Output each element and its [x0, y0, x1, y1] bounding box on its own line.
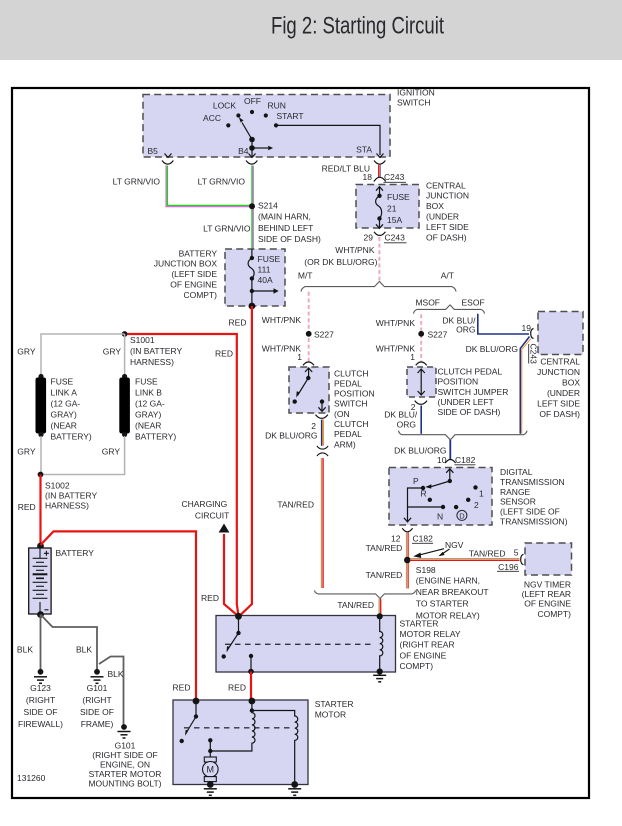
brace split MSOF - ESOF: [414, 305, 485, 314]
fuse 21 element: [377, 194, 381, 198]
svg-text:DK BLU/ORG: DK BLU/ORG: [466, 344, 518, 354]
svg-text:SWITCH JUMPER: SWITCH JUMPER: [438, 387, 509, 397]
svg-text:DIGITAL: DIGITAL: [500, 467, 533, 477]
svg-text:BEHIND LEFT: BEHIND LEFT: [258, 223, 313, 233]
svg-text:COMPT): COMPT): [183, 290, 217, 300]
svg-text:FIREWALL): FIREWALL): [18, 719, 63, 729]
NGV timer box: [525, 543, 572, 575]
svg-text:RED: RED: [228, 682, 246, 692]
svg-text:LINK A: LINK A: [51, 388, 78, 398]
svg-text:POSITION: POSITION: [334, 389, 375, 399]
wire WHT/PNK M/T branch: [308, 292, 310, 362]
svg-text:10: 10: [437, 455, 447, 465]
svg-text:(IN BATTERY: (IN BATTERY: [130, 346, 182, 356]
ground G101 frame: [94, 669, 100, 675]
brace split M/T - A/T: [301, 281, 456, 291]
relay switch: [227, 616, 251, 671]
svg-text:(LEFT REAR: (LEFT REAR: [522, 589, 571, 599]
svg-text:G101: G101: [115, 740, 136, 750]
svg-text:S1001: S1001: [130, 335, 155, 345]
wire DK BLU/ORG brace to C182 pin 10: [449, 440, 451, 459]
fuse 21 exit arrow: [379, 219, 381, 228]
svg-text:BLK: BLK: [76, 645, 92, 655]
brace merge to starter motor relay: [315, 590, 416, 598]
starter hold-in winding: [252, 711, 298, 785]
splice S198: [404, 557, 411, 564]
svg-text:ENGINE, ON: ENGINE, ON: [100, 760, 150, 770]
svg-text:M: M: [207, 765, 215, 775]
wire B5 LT GRN/VIO: [166, 166, 252, 207]
svg-text:21: 21: [387, 203, 397, 213]
wire TAN/RED brace to relay: [378, 599, 380, 616]
relay mechanical link: [225, 643, 375, 645]
svg-text:NGV: NGV: [445, 540, 464, 550]
svg-text:C243: C243: [529, 344, 539, 365]
svg-text:GRAY): GRAY): [135, 410, 161, 420]
starter winding ground: [291, 781, 298, 788]
ground G101 engine: [121, 724, 127, 730]
wire RED from S1001 down to relay: [128, 334, 239, 616]
svg-text:SENSOR: SENSOR: [500, 497, 536, 507]
interrupt symbol: [317, 446, 328, 449]
svg-text:CENTRAL: CENTRAL: [540, 356, 580, 366]
svg-text:OF DASH): OF DASH): [539, 409, 580, 419]
starter motor relay box: [216, 616, 396, 673]
svg-text:GRY: GRY: [102, 446, 121, 456]
svg-text:ORG: ORG: [456, 325, 475, 335]
starter feed nodes: [193, 698, 200, 705]
svg-text:CLUTCH PEDAL: CLUTCH PEDAL: [438, 366, 503, 376]
clutch pedal position switch entry cap: [303, 362, 314, 365]
svg-text:GRY: GRY: [17, 446, 36, 456]
ignition switch lever B4 to LOCK: [239, 117, 273, 156]
svg-text:TAN/RED: TAN/RED: [277, 500, 314, 510]
relay feed node: [235, 613, 242, 620]
svg-text:HARNESS): HARNESS): [45, 501, 89, 511]
svg-text:(RIGHT SIDE OF: (RIGHT SIDE OF: [92, 750, 158, 760]
svg-text:B4: B4: [238, 146, 249, 156]
svg-text:C182: C182: [413, 533, 434, 543]
svg-text:S198: S198: [416, 565, 436, 575]
svg-text:FUSE: FUSE: [135, 377, 158, 387]
svg-text:STARTER: STARTER: [315, 699, 354, 709]
wire TAN/RED S198 to C196: [410, 558, 520, 560]
svg-text:LT GRN/VIO: LT GRN/VIO: [113, 177, 161, 187]
relay coil: [377, 613, 383, 619]
svg-text:GRY: GRY: [17, 346, 36, 356]
svg-text:WHT/PNK: WHT/PNK: [335, 245, 375, 255]
fuse link A: [38, 374, 43, 379]
svg-text:(LEFT SIDE: (LEFT SIDE: [171, 269, 217, 279]
starter contact node: [208, 749, 212, 753]
ground G123: [38, 669, 44, 675]
svg-text:D: D: [459, 511, 465, 520]
svg-text:C182: C182: [455, 455, 476, 465]
svg-text:(RIGHT: (RIGHT: [26, 695, 55, 705]
clutch pedal position switch box: [289, 367, 329, 413]
svg-text:BLK: BLK: [108, 669, 124, 679]
clutch jumper entry cap: [416, 362, 427, 365]
svg-text:TAN/RED: TAN/RED: [469, 548, 506, 558]
wire STA RED/LT BLU: [378, 165, 380, 177]
svg-text:BATTERY: BATTERY: [56, 548, 95, 558]
starter solenoid pull-in coil: [250, 708, 254, 712]
svg-text:(NEAR: (NEAR: [135, 421, 161, 431]
svg-text:WHT/PNK: WHT/PNK: [262, 315, 302, 325]
svg-text:(ON: (ON: [334, 409, 350, 419]
svg-text:MSOF: MSOF: [415, 297, 440, 307]
svg-text:TAN/RED: TAN/RED: [366, 543, 403, 553]
svg-text:RANGE: RANGE: [500, 487, 531, 497]
brace merge to DTR sensor: [399, 431, 528, 440]
svg-text:BATTERY): BATTERY): [51, 432, 92, 442]
svg-text:M/T: M/T: [298, 270, 313, 280]
starter switch: [186, 701, 197, 734]
wire RED battery to starter motor: [41, 531, 197, 700]
svg-text:NGV TIMER: NGV TIMER: [524, 579, 571, 589]
svg-text:(UNDER: (UNDER: [426, 212, 459, 222]
svg-text:LINK B: LINK B: [135, 388, 162, 398]
svg-text:111: 111: [258, 264, 271, 274]
wire RED from BJB down to relay: [239, 306, 252, 616]
svg-text:ARM): ARM): [334, 439, 356, 449]
svg-text:SWITCH: SWITCH: [397, 98, 431, 108]
svg-text:OF ENGINE: OF ENGINE: [400, 650, 447, 660]
wire TAN/RED C182 to S198: [406, 533, 408, 589]
svg-text:RED: RED: [201, 593, 219, 603]
charging circuit branch wire: [224, 534, 239, 616]
svg-text:19: 19: [522, 323, 532, 333]
svg-text:29: 29: [364, 233, 374, 243]
svg-text:S227: S227: [428, 329, 448, 339]
fuse 21 box (central junction box): [356, 185, 419, 229]
svg-text:18: 18: [363, 172, 373, 182]
svg-text:(12 GA-: (12 GA-: [51, 399, 81, 409]
svg-text:OF ENGINE: OF ENGINE: [170, 280, 217, 290]
svg-text:STA: STA: [356, 145, 372, 155]
svg-text:MOTOR RELAY: MOTOR RELAY: [400, 629, 461, 639]
battery positive node: [37, 543, 44, 550]
battery negative node: [37, 611, 44, 618]
svg-text:CLUTCH: CLUTCH: [334, 419, 368, 429]
svg-text:LT GRN/VIO: LT GRN/VIO: [198, 177, 246, 187]
svg-text:FUSE: FUSE: [51, 377, 74, 387]
central junction box (right): [538, 312, 583, 355]
svg-text:RED: RED: [215, 348, 233, 358]
svg-text:N: N: [437, 512, 443, 522]
svg-text:C243: C243: [384, 172, 405, 182]
ignition switch box: [143, 95, 390, 158]
svg-text:(12 GA-: (12 GA-: [135, 399, 165, 409]
svg-text:RUN: RUN: [268, 101, 286, 111]
svg-text:POSITION: POSITION: [438, 376, 479, 386]
svg-text:STARTER: STARTER: [400, 618, 439, 628]
svg-text:FRAME): FRAME): [81, 719, 114, 729]
svg-text:P: P: [413, 476, 419, 486]
wire BLK battery to G101: [41, 615, 98, 671]
svg-text:TAN/RED: TAN/RED: [366, 570, 403, 580]
svg-text:R: R: [421, 489, 427, 499]
starter motor ground: [207, 781, 214, 788]
svg-text:FUSE: FUSE: [387, 192, 410, 202]
svg-text:LEFT SIDE: LEFT SIDE: [537, 398, 580, 408]
ignition START feed wire to STA: [276, 125, 380, 155]
wire RED S1002 to battery: [39, 475, 41, 546]
svg-text:LEFT SIDE: LEFT SIDE: [426, 222, 469, 232]
svg-text:(UNDER LEFT: (UNDER LEFT: [438, 397, 494, 407]
svg-text:JUNCTION: JUNCTION: [426, 191, 469, 201]
svg-text:MOUNTING BOLT): MOUNTING BOLT): [88, 779, 161, 789]
svg-text:PEDAL: PEDAL: [334, 429, 362, 439]
svg-text:(UNDER: (UNDER: [547, 388, 580, 398]
svg-text:CLUTCH: CLUTCH: [334, 368, 368, 378]
wire DK BLU/ORG jumper to brace: [420, 406, 422, 434]
jumper internal double arrow: [418, 369, 425, 395]
wire DK BLU/ORG pin 19 down: [520, 337, 529, 434]
svg-text:TRANSMISSION: TRANSMISSION: [500, 477, 565, 487]
svg-text:1: 1: [410, 352, 415, 362]
clutch pedal position switch jumper box: [407, 367, 436, 397]
ignition position contacts: [226, 110, 278, 128]
svg-text:C196: C196: [498, 562, 519, 572]
svg-text:(ENGINE HARN,: (ENGINE HARN,: [416, 575, 480, 585]
svg-text:STARTER MOTOR: STARTER MOTOR: [89, 769, 162, 779]
svg-text:FUSE: FUSE: [258, 254, 281, 264]
svg-text:S1002: S1002: [45, 481, 70, 491]
svg-text:BOX: BOX: [562, 377, 580, 387]
starter motor box: [173, 700, 308, 785]
svg-text:DK BLU/ORG: DK BLU/ORG: [394, 445, 446, 455]
svg-text:BOX: BOX: [426, 201, 444, 211]
svg-text:WHT/PNK: WHT/PNK: [376, 318, 416, 328]
svg-text:(RIGHT: (RIGHT: [82, 695, 111, 705]
wire BLK to G101 engine: [99, 657, 124, 726]
svg-text:START: START: [277, 111, 304, 121]
splice S1002: [38, 472, 44, 478]
digital transmission range sensor box: [389, 468, 492, 526]
starter motor M: [204, 757, 216, 762]
svg-text:S227: S227: [314, 329, 334, 339]
connector C182 pin 12: [402, 528, 412, 532]
wire DK BLU/ORG ESOF to C243 pin 19: [478, 314, 529, 334]
svg-text:HARNESS): HARNESS): [130, 357, 174, 367]
svg-text:2: 2: [474, 500, 479, 510]
svg-text:G101: G101: [87, 683, 108, 693]
svg-text:TO STARTER: TO STARTER: [416, 599, 469, 609]
battery junction box: [225, 249, 285, 306]
diagram frame: [12, 88, 589, 798]
svg-text:COMPT): COMPT): [400, 661, 434, 671]
svg-text:1: 1: [479, 488, 484, 498]
splice S1001: [122, 331, 128, 337]
svg-text:BATTERY: BATTERY: [179, 248, 218, 258]
svg-text:SIDE OF DASH): SIDE OF DASH): [258, 234, 321, 244]
jumper exit cup, pin 2: [415, 401, 427, 405]
svg-text:IGNITION: IGNITION: [397, 88, 435, 98]
svg-text:CHARGING: CHARGING: [181, 499, 227, 509]
clutch switch exit cup, pin 2: [316, 415, 328, 419]
clutch switch internals: [298, 368, 326, 411]
svg-text:SIDE OF: SIDE OF: [80, 707, 114, 717]
svg-text:JUNCTION BOX: JUNCTION BOX: [154, 259, 218, 269]
svg-text:1: 1: [297, 352, 302, 362]
svg-text:(OR DK BLU/ORG): (OR DK BLU/ORG): [304, 257, 377, 267]
svg-text:A/T: A/T: [441, 270, 454, 280]
svg-text:RED: RED: [229, 317, 247, 327]
connector C243 pin 29: [374, 232, 385, 236]
svg-text:15A: 15A: [387, 215, 402, 225]
splice S227 (A/T): [418, 331, 424, 337]
svg-text:B5: B5: [148, 146, 159, 156]
splice S227 (M/T): [306, 331, 312, 337]
svg-text:2: 2: [311, 421, 316, 431]
svg-text:TRANSMISSION): TRANSMISSION): [500, 517, 568, 527]
svg-text:NEAR BREAKOUT: NEAR BREAKOUT: [416, 587, 489, 597]
wire GRY fuse links to S1002: [41, 436, 125, 475]
battery: [29, 548, 51, 614]
svg-text:CENTRAL: CENTRAL: [426, 180, 466, 190]
svg-text:SIDE OF DASH): SIDE OF DASH): [438, 407, 501, 417]
svg-text:PEDAL: PEDAL: [334, 379, 362, 389]
svg-text:OF DASH): OF DASH): [426, 232, 467, 242]
wire BLK battery to G123: [40, 615, 42, 671]
svg-text:C243: C243: [385, 233, 406, 243]
svg-text:ESOF: ESOF: [462, 297, 485, 307]
DTR sensor internals: [404, 469, 454, 522]
svg-text:CIRCUIT: CIRCUIT: [195, 510, 229, 520]
battery plus sign: [44, 551, 49, 556]
svg-text:LOCK: LOCK: [213, 101, 236, 111]
svg-text:(MAIN HARN,: (MAIN HARN,: [258, 212, 311, 222]
svg-text:LT GRN/VIO: LT GRN/VIO: [203, 224, 251, 234]
relay ground: [373, 675, 386, 682]
svg-text:(NEAR: (NEAR: [51, 421, 77, 431]
svg-text:ORG: ORG: [397, 420, 416, 430]
svg-text:5: 5: [514, 548, 519, 558]
svg-text:(IN BATTERY: (IN BATTERY: [45, 491, 97, 501]
svg-text:SIDE OF: SIDE OF: [23, 707, 57, 717]
fuse 111 output node and arrow: [251, 279, 253, 307]
splice S214: [249, 203, 255, 209]
svg-text:S214: S214: [258, 201, 278, 211]
svg-text:WHT/PNK: WHT/PNK: [262, 343, 302, 353]
svg-text:TAN/RED: TAN/RED: [337, 600, 374, 610]
svg-text:12: 12: [391, 533, 401, 543]
svg-text:DK BLU/ORG: DK BLU/ORG: [265, 431, 317, 441]
svg-text:GRY: GRY: [103, 346, 122, 356]
svg-text:BATTERY): BATTERY): [135, 432, 176, 442]
wire WHT/PNK MSOF branch: [420, 314, 422, 362]
svg-text:MOTOR: MOTOR: [315, 709, 346, 719]
svg-text:OFF: OFF: [244, 96, 261, 106]
svg-text:131260: 131260: [17, 773, 46, 783]
node at BJB bottom: [249, 303, 256, 310]
svg-text:(LEFT SIDE OF: (LEFT SIDE OF: [500, 507, 560, 517]
svg-text:BLK: BLK: [17, 645, 33, 655]
svg-text:DK BLU/: DK BLU/: [384, 410, 418, 420]
fuse 111 element: [251, 249, 253, 258]
svg-text:GRAY): GRAY): [51, 410, 77, 420]
wire WHT/PNK from fuse 21: [378, 237, 380, 281]
header bar: [0, 0, 622, 60]
svg-text:RED: RED: [173, 682, 191, 692]
wire RED relay to starter motor: [250, 672, 252, 701]
svg-text:ACC: ACC: [203, 113, 221, 123]
svg-text:RED: RED: [18, 502, 36, 512]
svg-text:OF ENGINE: OF ENGINE: [524, 599, 571, 609]
svg-text:40A: 40A: [258, 275, 273, 285]
svg-text:G123: G123: [30, 683, 51, 693]
svg-text:JUNCTION: JUNCTION: [537, 367, 580, 377]
wire GRY S1001 down to fuse link B: [124, 334, 126, 375]
fuse 21 entry arrow: [376, 187, 383, 191]
svg-text:(RIGHT REAR: (RIGHT REAR: [400, 640, 455, 650]
wire B4 LT GRN/VIO down to BJB: [252, 166, 254, 250]
svg-text:Fig 2: Starting Circuit: Fig 2: Starting Circuit: [271, 13, 444, 40]
wire TAN/RED clutch to brace: [321, 458, 323, 588]
wire DK BLU/ORG clutch switch: [321, 420, 323, 446]
wire GRY S1001 left to fuse link A: [41, 334, 125, 375]
svg-text:COMPT): COMPT): [537, 609, 571, 619]
fuse link B: [122, 374, 127, 379]
starter mechanical link: [184, 727, 293, 729]
svg-text:SWITCH: SWITCH: [334, 399, 368, 409]
